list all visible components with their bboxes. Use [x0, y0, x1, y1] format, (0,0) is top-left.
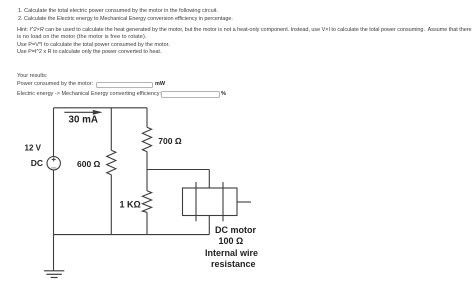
wire 600 branch top [110, 108, 112, 151]
answer box 1 [96, 82, 153, 89]
current arrow 30 mA [64, 110, 102, 115]
svg-text:100 Ω: 100 Ω [219, 236, 244, 246]
resistor 600 ohm [107, 150, 116, 175]
wire ground lead [53, 235, 55, 271]
svg-text:resistance: resistance [211, 259, 256, 269]
DC motor body [183, 188, 238, 216]
wire motor top lead [208, 170, 210, 189]
resistor 700 ohm [142, 127, 151, 151]
svg-text:DC: DC [31, 158, 43, 168]
wire 1K bottom [146, 212, 148, 234]
wire bottom [54, 234, 210, 236]
source polarity plus [52, 157, 56, 161]
svg-text:700 Ω: 700 Ω [158, 136, 182, 146]
motor brush right [222, 182, 224, 221]
wire left lower [53, 170, 55, 235]
source polarity minus [51, 167, 56, 169]
wire 600 branch bottom [110, 175, 112, 235]
svg-text:30 mA: 30 mA [69, 115, 98, 126]
resistor 1 Kohm [142, 191, 151, 213]
svg-text:1 KΩ: 1 KΩ [120, 200, 141, 210]
svg-text:600 Ω: 600 Ω [77, 159, 101, 169]
svg-text:12 V: 12 V [25, 144, 42, 153]
wire mid horizontal [147, 169, 209, 171]
wire left upper [53, 108, 55, 157]
wire top [54, 107, 148, 109]
ground [44, 271, 64, 278]
voltage source V1 [47, 157, 60, 170]
motor shaft [237, 201, 251, 203]
wire 700 branch top [146, 108, 148, 127]
wire mid vertical [146, 152, 148, 191]
wire motor bottom lead [208, 216, 210, 235]
svg-text:DC motor: DC motor [215, 225, 256, 235]
svg-text:Internal wire: Internal wire [205, 248, 258, 258]
problem text [18, 8, 218, 14]
motor brush left [195, 182, 197, 221]
answer box 2 [161, 91, 220, 98]
